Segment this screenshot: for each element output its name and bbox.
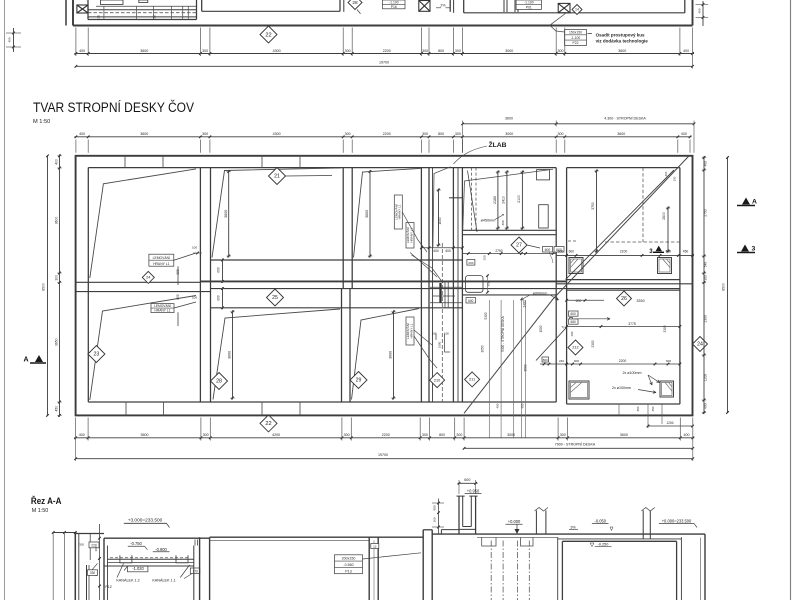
svg-text:2200: 2200: [383, 49, 391, 53]
plan: inner wall edges top/bottom: [88, 167, 556, 169]
plan: zlab channel dim row 600 600: [421, 247, 462, 249]
svg-text:2x ø100mm: 2x ø100mm: [612, 386, 631, 390]
section: 170 box: [190, 568, 200, 574]
svg-text:-0.250: -0.250: [598, 543, 609, 547]
svg-text:400: 400: [704, 161, 708, 167]
section: 600 dim above chimney: [458, 482, 478, 484]
section: wall bay1 right: [193, 546, 195, 600]
svg-text:300: 300: [345, 132, 351, 136]
plan: Z7 compartment details: [471, 168, 473, 231]
svg-text:KANÁLEK 1.1: KANÁLEK 1.1: [152, 579, 175, 583]
top drawing: double vertical marks right tank: [503, 0, 505, 12]
plan: short diagonal near Z12: [536, 328, 566, 361]
plan: diamond Z1 with leader: [286, 175, 333, 178]
svg-text:3500: 3500: [524, 364, 528, 371]
svg-text:2200: 2200: [619, 359, 627, 363]
svg-text:100: 100: [192, 246, 197, 250]
plan: top dimension row: [74, 136, 691, 138]
svg-text:22: 22: [265, 421, 271, 427]
svg-text:800: 800: [438, 132, 444, 136]
svg-text:3050: 3050: [481, 345, 485, 352]
svg-text:300: 300: [344, 433, 350, 437]
svg-text:ŽLAB: ŽLAB: [488, 140, 506, 149]
svg-text:+3.000=233.500: +3.000=233.500: [128, 518, 163, 524]
svg-text:M 1:50: M 1:50: [32, 508, 49, 514]
plan: leader from 600 box: [549, 252, 553, 263]
svg-text:3800: 3800: [224, 210, 228, 218]
svg-text:7900 - STROPNÍ DESKA: 7900 - STROPNÍ DESKA: [555, 443, 596, 447]
plan: section marker A right: [737, 205, 755, 207]
section: notches below slab: [482, 537, 496, 546]
plan: leaders from lemovani boxes: [402, 212, 427, 252]
svg-text:3750: 3750: [591, 202, 595, 210]
svg-text:400: 400: [55, 159, 59, 165]
svg-text:680: 680: [666, 249, 672, 253]
section: chimney channel above slab: [458, 496, 460, 534]
svg-text:2300: 2300: [591, 340, 595, 347]
plan: diamond Z9: [350, 372, 367, 389]
svg-text:100: 100: [444, 332, 449, 336]
svg-text:100: 100: [432, 332, 437, 336]
svg-text:300: 300: [94, 546, 98, 551]
svg-text:4200: 4200: [272, 433, 280, 437]
svg-text:400: 400: [79, 433, 85, 437]
svg-text:300: 300: [203, 433, 209, 437]
svg-text:2180: 2180: [493, 196, 497, 204]
section: pipe stub 2: [642, 510, 644, 539]
svg-text:300: 300: [202, 132, 208, 136]
svg-text:150: 150: [153, 15, 157, 20]
plan: slope diagonal cell top-left: [90, 169, 196, 278]
top drawing: leader to prostup table: [550, 13, 566, 32]
top drawing: boxed level label right tank: [516, 0, 541, 9]
svg-text:Ty: Ty: [561, 325, 565, 329]
plan: slope diagonal cell bottom-left: [90, 296, 196, 401]
plan: diamond Z5: [267, 289, 284, 306]
svg-text:450: 450: [683, 249, 689, 253]
svg-text:600: 600: [571, 312, 577, 316]
svg-text:viz dodávka technologie: viz dodávka technologie: [596, 38, 649, 43]
plan: 600 box right walkway: [569, 311, 579, 316]
plan: rotated LEMOVANI box col3: [394, 195, 402, 229]
svg-text:600: 600: [545, 248, 551, 252]
svg-text:M 1:50: M 1:50: [33, 119, 50, 125]
section: left bay slab lines: [108, 558, 194, 560]
top drawing: outer tank walls (cut off at page top): [65, 0, 67, 26]
svg-text:21: 21: [274, 174, 280, 180]
svg-text:2100: 2100: [517, 195, 521, 203]
svg-text:300: 300: [704, 275, 708, 281]
plan: left overall vertical dim 8500: [47, 156, 49, 416]
svg-text:450: 450: [487, 281, 491, 286]
svg-text:5300 - STROPNÍ DESKA: 5300 - STROPNÍ DESKA: [501, 315, 505, 351]
svg-text:2100: 2100: [620, 249, 628, 253]
svg-text:3600: 3600: [55, 217, 59, 225]
svg-text:200: 200: [468, 261, 473, 265]
svg-text:300: 300: [501, 220, 505, 225]
section: 330 box: [88, 570, 98, 576]
svg-text:P16: P16: [391, 5, 397, 9]
svg-text:HRANY L1: HRANY L1: [153, 262, 170, 266]
section: right tank outline: [557, 537, 559, 600]
top drawing: prostup annotation table 150x150 / -1.100 / P22: [565, 30, 587, 46]
top drawing: left small vertical dim: [13, 28, 15, 52]
plan: opening square with 450 dim: [466, 276, 484, 293]
plan: rotated LEMOVANI box zlab upper: [406, 223, 414, 249]
plan: mid-band details at zlab crossing: [439, 283, 441, 303]
svg-text:600: 600: [574, 359, 579, 363]
section: left dim line: [99, 524, 101, 600]
svg-text:600: 600: [464, 478, 470, 482]
svg-text:160: 160: [433, 517, 437, 522]
svg-text:680: 680: [571, 320, 577, 324]
svg-text:29: 29: [356, 378, 362, 384]
plan: wall col2/col3 lower: [341, 289, 343, 402]
svg-text:400: 400: [79, 49, 85, 53]
svg-text:P13: P13: [345, 569, 351, 573]
plan: zlab channel vertical dim 1600: [438, 189, 440, 247]
plan: slope diagonal col2 upper: [212, 168, 341, 258]
svg-text:8500: 8500: [42, 283, 46, 291]
plan: right top cell dim row with section 3 mark: [556, 254, 694, 256]
plan: diamond 24 right side: [693, 337, 708, 352]
svg-text:300: 300: [422, 433, 428, 437]
svg-text:-0.560: -0.560: [343, 563, 353, 567]
plan: Z10 bracket dims: [445, 334, 450, 353]
svg-text:3300: 3300: [663, 325, 667, 332]
svg-text:TVAR STROPNÍ DESKY ČOV: TVAR STROPNÍ DESKY ČOV: [33, 99, 194, 116]
svg-text:3600: 3600: [228, 351, 232, 359]
plan: right top cell vertical dims 3750 2800: [596, 170, 598, 253]
svg-text:P01: P01: [526, 5, 532, 9]
plan: middle horizontal wall band: [211, 259, 463, 261]
svg-text:+0.950: +0.950: [467, 488, 480, 493]
svg-text:4300: 4300: [273, 49, 281, 53]
svg-text:400: 400: [704, 403, 708, 409]
section: vertical dim near chimney: [438, 499, 440, 535]
svg-text:150: 150: [97, 15, 101, 20]
plan: vertical dim 3600 col3 lower: [393, 310, 395, 399]
svg-text:12: 12: [373, 544, 377, 548]
top drawing: crossed box opening right with diamond: [558, 3, 570, 12]
svg-text:950: 950: [433, 505, 437, 510]
svg-text:+0.000=233.500: +0.000=233.500: [662, 518, 692, 523]
plan: bottom edge opening stubs: [125, 402, 127, 415]
plan: diamond Z6: [617, 291, 632, 306]
svg-text:HRANY L1: HRANY L1: [409, 323, 413, 338]
plan: diamond Z10: [430, 373, 445, 388]
svg-text:27: 27: [516, 243, 522, 249]
svg-text:150: 150: [483, 255, 487, 260]
svg-text:3775: 3775: [628, 322, 636, 326]
section: 220 box left: [89, 542, 99, 548]
svg-text:3800: 3800: [365, 210, 369, 218]
svg-text:2300: 2300: [704, 315, 708, 322]
plan: wall zlab/mid: [452, 168, 454, 402]
svg-text:3600: 3600: [140, 132, 148, 136]
plan: zlab channel lines: [432, 168, 434, 402]
svg-text:3650: 3650: [55, 338, 59, 346]
svg-text:3600: 3600: [140, 433, 148, 437]
section: pipe stub 1: [535, 510, 537, 534]
plan: diamond 22 bottom: [260, 415, 277, 432]
svg-text:Řez A-A: Řez A-A: [31, 495, 62, 506]
svg-text:300: 300: [55, 275, 59, 281]
svg-text:-1.100: -1.100: [389, 0, 399, 4]
svg-text:P12: P12: [105, 585, 111, 589]
page border left: [4, 0, 6, 600]
plan: bottom dimension row: [74, 437, 694, 439]
svg-text:600: 600: [576, 299, 582, 303]
svg-text:3600: 3600: [505, 116, 513, 120]
plan: left vertical dimension chain: [59, 154, 61, 417]
svg-text:2750: 2750: [495, 249, 502, 253]
plan: slope diagonal col3 upper: [354, 168, 421, 257]
svg-text:HRANY L1: HRANY L1: [398, 204, 402, 219]
svg-text:4300: 4300: [273, 132, 281, 136]
svg-text:150x150: 150x150: [569, 31, 582, 35]
svg-text:25: 25: [272, 295, 278, 301]
svg-text:600: 600: [446, 249, 452, 253]
plan: Z7 compartment bottom walls: [462, 229, 556, 231]
plan: LEMOVANI HRANY L1 box cell1: [149, 254, 174, 266]
svg-text:HRANY L1: HRANY L1: [409, 227, 413, 242]
svg-text:22: 22: [265, 32, 271, 38]
svg-text:LEMOVÁNÍ: LEMOVÁNÍ: [154, 304, 171, 308]
svg-text:2800: 2800: [662, 212, 666, 220]
svg-text:450: 450: [520, 403, 524, 408]
plan: diamond Z11: [465, 372, 480, 387]
svg-text:2x ø100mm: 2x ø100mm: [622, 371, 641, 375]
plan: diamond Z3: [88, 346, 105, 363]
plan: section marker A left: [30, 362, 46, 364]
svg-text:KANÁLEK 1.2: KANÁLEK 1.2: [116, 579, 139, 583]
svg-text:19700: 19700: [379, 61, 389, 65]
svg-text:400: 400: [683, 49, 689, 53]
svg-text:A: A: [752, 199, 757, 206]
plan: 200 box walkway: [467, 260, 475, 266]
plan: slope diagonal col3 lower: [352, 309, 420, 400]
svg-text:Osadit prostupový kus: Osadit prostupový kus: [596, 32, 645, 37]
svg-text:3600: 3600: [618, 49, 626, 53]
svg-text:1200: 1200: [704, 374, 708, 381]
svg-text:1500: 1500: [539, 325, 543, 332]
section: 200x150 -0.560 P13 table: [335, 555, 363, 574]
plan: wall col1/col2: [199, 168, 201, 402]
svg-text:200x150: 200x150: [342, 557, 356, 561]
svg-text:28: 28: [216, 379, 222, 385]
svg-text:-0.750: -0.750: [130, 541, 142, 546]
svg-text:300: 300: [79, 543, 84, 547]
svg-text:1600: 1600: [438, 341, 442, 348]
svg-text:+0.000: +0.000: [508, 519, 521, 524]
plan: section marker 3 right: [737, 252, 755, 254]
svg-text:1200: 1200: [666, 421, 673, 425]
svg-text:450: 450: [651, 406, 655, 411]
svg-text:400: 400: [8, 37, 12, 42]
top drawing: diamond mark 28 (cut): [348, 0, 362, 10]
svg-text:400: 400: [681, 132, 687, 136]
svg-text:8500: 8500: [722, 283, 726, 291]
plan: diagonal right top cell: [566, 170, 675, 280]
plan: right overall vertical dim 8500: [727, 158, 729, 413]
plan: wall mid/right: [555, 168, 557, 402]
svg-text:240: 240: [559, 359, 564, 363]
svg-text:3600: 3600: [389, 351, 393, 359]
svg-text:100: 100: [192, 296, 197, 300]
svg-text:2200: 2200: [383, 132, 391, 136]
section: tall wall with parapet: [422, 530, 424, 600]
plan: 7900 stropni deska row: [464, 447, 693, 449]
svg-text:600: 600: [176, 294, 180, 300]
section: slab top lines: [104, 537, 210, 539]
svg-text:150: 150: [570, 331, 574, 336]
svg-text:600: 600: [666, 359, 671, 363]
svg-text:-1.100: -1.100: [571, 36, 581, 40]
plan: vertical dim 3800 col2 upper: [228, 170, 230, 257]
svg-text:540: 540: [704, 262, 708, 268]
svg-text:3350: 3350: [636, 299, 644, 303]
svg-text:3000: 3000: [507, 433, 515, 437]
top drawing: boxed level label -1.100 P16: [383, 0, 406, 9]
top drawing: crossed box opening left: [77, 5, 88, 13]
svg-text:800: 800: [439, 433, 445, 437]
section: left outer wall: [103, 538, 105, 600]
top drawing: right vertical dim 400: [702, 1, 704, 26]
svg-text:24: 24: [697, 342, 703, 348]
svg-text:600: 600: [558, 249, 564, 253]
plan: slope diagonal col2 lower: [213, 309, 340, 400]
svg-text:-0.900: -0.900: [155, 547, 167, 552]
plan: top edge opening stubs: [124, 156, 126, 168]
top drawing: overall dimension 19700: [76, 65, 693, 67]
plan: small diamond at cell1 bottom: [142, 271, 154, 283]
svg-text:ø900mm: ø900mm: [533, 291, 548, 295]
svg-text:210: 210: [434, 378, 440, 382]
svg-text:26: 26: [621, 296, 627, 302]
top drawing: bottom dimension row: [74, 53, 694, 55]
top drawing: small boxes cut at top edge: [101, 0, 124, 5]
svg-text:3: 3: [752, 246, 756, 253]
svg-text:2750: 2750: [704, 209, 708, 216]
plan: vertical dim 3600 col2 lower: [232, 310, 234, 399]
svg-text:ø450mm: ø450mm: [481, 218, 496, 222]
svg-text:A: A: [23, 357, 28, 364]
svg-text:300: 300: [456, 433, 462, 437]
svg-text:300: 300: [557, 132, 563, 136]
svg-text:3600: 3600: [140, 49, 148, 53]
svg-text:300: 300: [422, 49, 428, 53]
plan: outer wall rectangle: [76, 156, 693, 416]
top drawing: diamond 22 on bottom edge: [260, 26, 277, 43]
svg-text:300: 300: [560, 433, 566, 437]
plan: Z11 cell vertical extension lines and rotated labels: [488, 300, 490, 438]
svg-text:400: 400: [79, 132, 85, 136]
svg-text:4.300 - STROPNÍ DESKA: 4.300 - STROPNÍ DESKA: [604, 116, 646, 120]
plan: wall col3/zlab: [420, 168, 422, 402]
svg-text:300: 300: [557, 49, 563, 53]
top drawing: crossed box opening mid: [419, 1, 430, 12]
plan: Z6 cell bottom dim row: [540, 363, 680, 365]
svg-text:600: 600: [434, 249, 440, 253]
svg-text:300: 300: [345, 49, 351, 53]
svg-text:350: 350: [636, 406, 640, 411]
svg-text:600: 600: [569, 249, 575, 253]
svg-text:3600: 3600: [617, 132, 625, 136]
plan: walkway dim row below Z7: [462, 253, 556, 255]
plan: corner sumps right cells: [569, 258, 583, 274]
svg-text:2400: 2400: [523, 300, 527, 307]
plan: diamond Z12: [568, 340, 583, 355]
svg-text:400: 400: [664, 171, 668, 176]
plan: rotated LEMOVANI box zlab lower: [406, 317, 414, 345]
svg-text:23: 23: [94, 352, 100, 358]
section: kanalek notches: [120, 555, 132, 563]
svg-text:600: 600: [176, 269, 180, 275]
plan: diamond Z8 lower: [211, 373, 228, 390]
svg-text:330: 330: [90, 571, 96, 575]
svg-text:LEMOVÁNÍ: LEMOVÁNÍ: [153, 256, 171, 260]
svg-text:2200: 2200: [382, 433, 390, 437]
plan: overall 19700 row: [76, 458, 693, 460]
svg-text:-0.050: -0.050: [595, 518, 607, 523]
svg-text:-1.020: -1.020: [132, 566, 144, 571]
svg-text:2%: 2%: [440, 4, 446, 8]
top drawing: cell bottom inner edges: [88, 19, 197, 21]
svg-text:HRANY L1: HRANY L1: [155, 309, 171, 313]
plan: wall col2/col3 upper: [342, 168, 344, 289]
svg-text:-1.100: -1.100: [524, 1, 534, 5]
svg-text:800: 800: [543, 358, 548, 362]
section: far left wall and dims: [74, 534, 76, 600]
page border right: [790, 0, 792, 600]
svg-text:212: 212: [572, 346, 578, 350]
plan: LEMOVANI HRANY L1 box cell2: [151, 304, 174, 313]
plan: vertical dim 3800 col3 upper: [369, 170, 371, 257]
svg-text:28: 28: [352, 0, 358, 6]
svg-text:2410: 2410: [502, 196, 506, 204]
svg-text:211: 211: [469, 378, 475, 382]
svg-text:1600: 1600: [438, 217, 442, 224]
svg-text:300: 300: [422, 132, 428, 136]
plan: right top cell bottom and wall band: [567, 279, 680, 281]
svg-text:150: 150: [673, 176, 677, 181]
svg-text:600: 600: [217, 295, 221, 301]
svg-text:600: 600: [468, 299, 474, 303]
plan: upper dim row stropni deska: [463, 123, 694, 125]
svg-text:19700: 19700: [378, 453, 388, 457]
plan: right top cell dashed chamber lines: [642, 168, 644, 242]
svg-text:3000: 3000: [505, 132, 513, 136]
svg-text:400: 400: [697, 8, 701, 13]
svg-text:3%: 3%: [570, 525, 576, 529]
svg-text:450: 450: [55, 406, 59, 412]
section: far right wall: [704, 534, 706, 600]
svg-text:3: 3: [649, 248, 653, 255]
svg-text:170: 170: [192, 569, 198, 573]
svg-text:14: 14: [575, 8, 579, 12]
svg-text:400: 400: [683, 433, 689, 437]
plan: right vertical dimension chain: [703, 156, 705, 414]
plan: below Z6 cell small dims: [618, 404, 620, 415]
plan: long diagonal through Z11 cell: [464, 156, 689, 413]
svg-text:300: 300: [455, 49, 461, 53]
plan: boxed 600 pair near Z7: [543, 247, 553, 253]
svg-text:3000: 3000: [505, 49, 513, 53]
svg-text:450: 450: [496, 403, 500, 408]
svg-text:P22: P22: [572, 41, 578, 45]
plan: inner wall edges left/right: [87, 168, 89, 402]
